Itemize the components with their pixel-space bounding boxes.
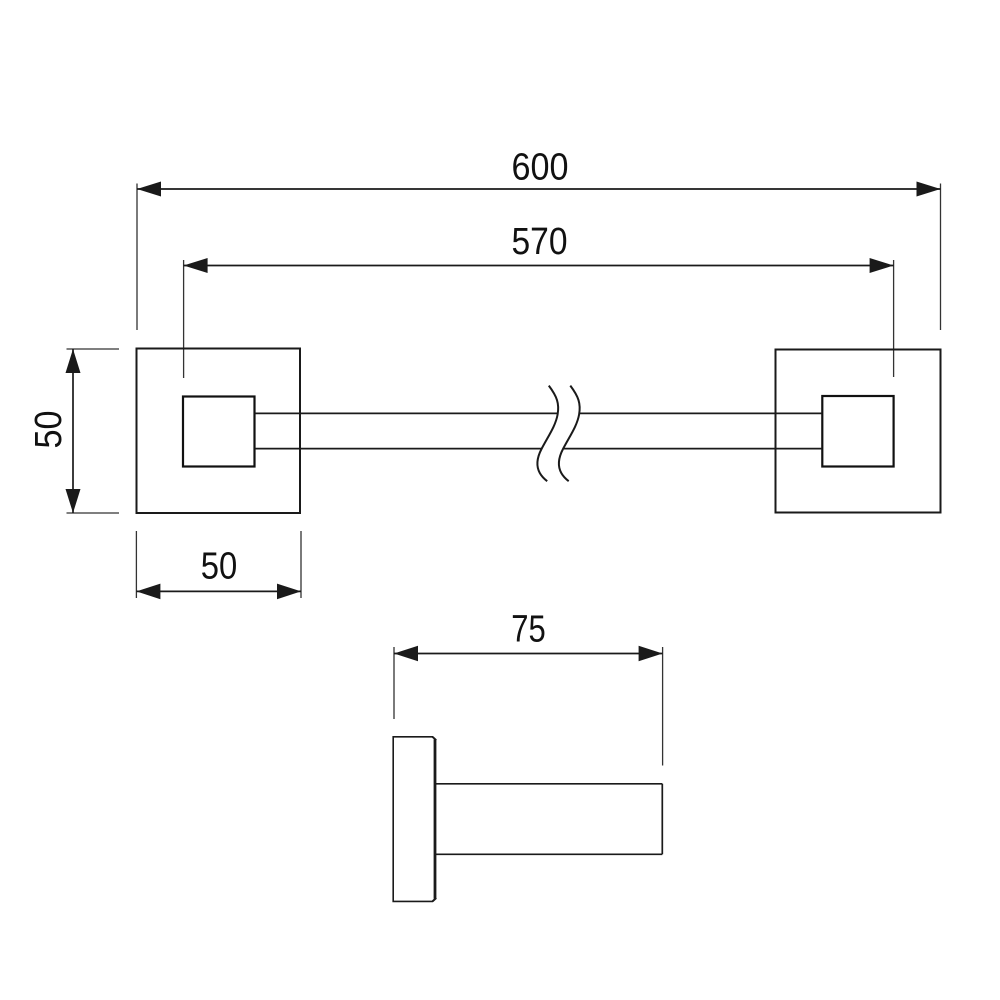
extension line right of 570 dim	[893, 260, 895, 377]
arrowhead bottom of 50	[66, 489, 81, 513]
extension line bottom of left 50 dim	[67, 512, 120, 514]
bar bottom edge left segment	[255, 448, 543, 450]
svg-text:50: 50	[28, 411, 70, 449]
arrowhead top of 50	[66, 349, 81, 373]
left mounting block (inner square)	[183, 397, 255, 467]
extension line left of 570 dim	[183, 260, 185, 378]
bar top edge left segment	[255, 412, 558, 414]
svg-text:600: 600	[512, 147, 569, 189]
side view arm end edge	[661, 784, 663, 855]
arrowhead right of 600	[917, 182, 941, 197]
extension line top of left 50 dim	[67, 348, 120, 350]
break symbol right wave	[559, 386, 580, 482]
right wall plate (front view)	[776, 350, 941, 513]
side view plate top-right chamfer	[433, 737, 437, 740]
svg-text:570: 570	[512, 221, 568, 263]
extension line left of 75 dim	[393, 647, 395, 719]
arrowhead right of 75	[639, 646, 663, 662]
arrowhead right of bottom 50	[277, 584, 301, 600]
bar top edge right segment	[580, 412, 823, 414]
arrowhead left of 570	[184, 258, 208, 273]
dimension line 50 vertical	[72, 349, 74, 513]
break symbol left wave	[537, 386, 558, 482]
side view arm bottom edge	[436, 853, 663, 855]
bar bottom edge right segment	[564, 448, 822, 450]
extension line right of 75 dim	[662, 647, 664, 766]
arrowhead left of 75	[394, 646, 418, 662]
extension line left of 600 dim	[136, 184, 138, 331]
side view wall plate right edge (thicker)	[434, 740, 437, 899]
dimension line 50 bottom	[136, 590, 301, 592]
extension line left of bottom 50 dim	[135, 531, 137, 598]
left wall plate (front view)	[137, 349, 301, 514]
right mounting block (inner square)	[822, 396, 893, 467]
arrowhead left of bottom 50	[136, 584, 160, 600]
side view wall plate	[393, 737, 433, 902]
arrowhead left of 600	[137, 182, 161, 197]
extension line right of 600 dim	[940, 184, 942, 331]
arrowhead right of 570	[870, 258, 894, 273]
svg-text:75: 75	[511, 609, 546, 651]
extension line right of bottom 50 dim	[300, 531, 302, 598]
side view plate bottom-right chamfer	[433, 898, 437, 901]
dimension line 75	[394, 653, 663, 655]
svg-text:50: 50	[201, 546, 238, 588]
dimension line 600	[137, 188, 941, 190]
side view arm top edge	[436, 783, 663, 785]
dimension line 570	[184, 265, 894, 267]
